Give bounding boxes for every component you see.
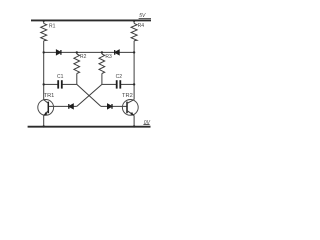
wire: cross coupling diagonal from right cap node to TR1 base line (77, 84, 102, 106)
diode D1 (top left, pointing right) (56, 50, 61, 55)
svg-text:R1: R1 (49, 23, 56, 29)
svg-text:0V: 0V (144, 120, 151, 126)
junction dot at TR1 emitter on 0V rail (43, 125, 45, 127)
junction dot at right column cap line (133, 83, 135, 85)
net label 0V (143, 120, 150, 126)
junction dot at R4 top rail (133, 20, 135, 22)
wire: TR1 emitter to 0V rail (43, 115, 45, 126)
wire: C2 line right segment (102, 83, 134, 85)
wire: TR2 base line (101, 105, 127, 107)
net label 5V (139, 13, 151, 19)
junction dot at R1 top rail (43, 20, 45, 22)
wire: horizontal trigger line y=52 (44, 51, 134, 53)
resistor R4 (131, 23, 137, 40)
junction dot at R2 top (76, 51, 78, 53)
transistor TR1 (NPN, base on right) (38, 100, 54, 116)
junction dot at R3 top (101, 51, 103, 53)
resistor R2 (74, 52, 80, 84)
wire: C1 line left segment (44, 83, 77, 85)
wire: TR2 emitter to 0V rail (133, 115, 135, 126)
wire: right column collector of TR2 up to rail (133, 20, 135, 99)
capacitor C1 (58, 80, 62, 88)
wire: TR1 base line (49, 105, 77, 107)
svg-text:TR1: TR1 (44, 93, 55, 99)
diode D3 (into TR1 base, pointing left) (69, 104, 74, 109)
5V supply rail (31, 19, 151, 21)
junction dot at TR2 emitter on 0V rail (133, 125, 135, 127)
svg-text:C2: C2 (116, 74, 123, 80)
junction dot at left column cap line (43, 83, 45, 85)
junction dot at right column trigger line (133, 51, 135, 53)
0V ground rail (28, 126, 151, 128)
resistor R3 (99, 52, 105, 84)
wire: left column collector of TR1 up to rail (43, 20, 45, 99)
capacitor C2 (117, 80, 121, 88)
svg-text:R3: R3 (105, 54, 112, 60)
diode D2 (top right, pointing left) (115, 50, 120, 55)
junction dot at left column trigger line (43, 51, 45, 53)
resistor R1 (41, 23, 47, 40)
transistor TR2 (NPN, base on left) (122, 100, 138, 116)
svg-text:R2: R2 (80, 54, 87, 60)
wire: cross coupling diagonal from left cap node to TR2 base line (77, 84, 101, 106)
svg-text:R4: R4 (138, 23, 145, 29)
svg-text:C1: C1 (57, 74, 64, 80)
svg-text:TR2: TR2 (122, 93, 133, 99)
diode D4 (into TR2 base, pointing right) (108, 104, 113, 109)
